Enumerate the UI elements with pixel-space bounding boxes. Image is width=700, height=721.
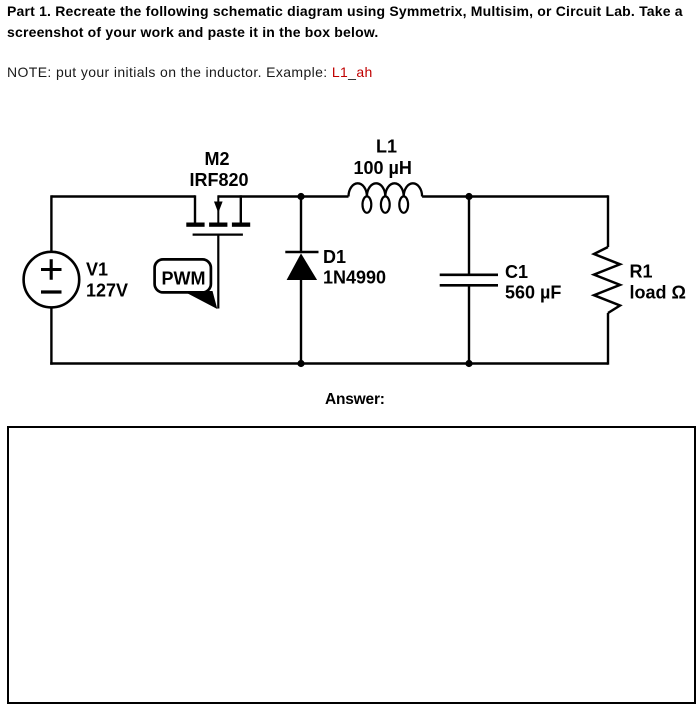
M2 left stub <box>194 195 196 222</box>
wire top-left segment <box>51 195 195 197</box>
node top of capacitor <box>465 193 472 200</box>
svg-text:560 µF: 560 µF <box>505 283 561 303</box>
svg-text:127V: 127V <box>86 281 128 301</box>
svg-text:M2: M2 <box>205 149 230 169</box>
M2 right stub <box>240 195 242 222</box>
wire right R1 bottom lead <box>607 313 609 365</box>
M2 channel bars <box>186 223 204 227</box>
svg-text:IRF820: IRF820 <box>190 170 249 190</box>
wire left V1 bottom lead <box>50 307 52 364</box>
wire top-middle segment <box>218 195 348 197</box>
wire capacitor branch bottom <box>468 285 470 363</box>
svg-text:R1: R1 <box>630 262 653 282</box>
M2 middle stub with arrow <box>217 195 219 222</box>
PWM source <box>155 259 218 309</box>
diode D1 <box>285 252 318 280</box>
resistor R1 <box>594 247 620 313</box>
svg-text:load Ω: load Ω <box>630 283 686 303</box>
wire diode branch top <box>300 197 302 253</box>
wire top-right segment <box>422 195 608 197</box>
transistor M2 <box>186 195 250 234</box>
svg-text:PWM: PWM <box>162 269 206 289</box>
M2 gate bar <box>193 234 243 236</box>
svg-text:C1: C1 <box>505 262 528 282</box>
svg-text:1N4990: 1N4990 <box>323 268 386 288</box>
node bottom of diode <box>297 360 304 367</box>
wire right R1 top lead <box>607 195 609 247</box>
node top of diode <box>297 193 304 200</box>
inductor L1 <box>349 183 423 213</box>
capacitor C1 <box>440 275 498 286</box>
wire bottom <box>50 362 608 364</box>
svg-text:D1: D1 <box>323 247 346 267</box>
wire diode branch bottom <box>300 279 302 364</box>
svg-text:V1: V1 <box>86 260 108 280</box>
svg-text:L1: L1 <box>376 136 397 156</box>
wire capacitor branch top <box>468 197 470 275</box>
wire left V1 top lead <box>50 195 52 252</box>
wire gate lead <box>217 235 219 309</box>
voltage source V1 <box>24 252 80 308</box>
node bottom of capacitor <box>465 360 472 367</box>
svg-text:100 µH: 100 µH <box>354 158 412 178</box>
